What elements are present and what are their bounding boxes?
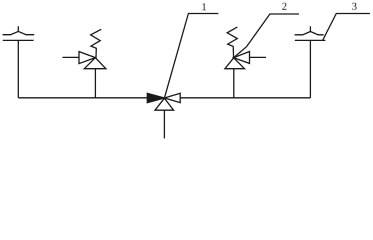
wire: arrester B down to bus [309,40,311,97]
wire: TVS1 down to bus [94,69,96,98]
wire: triac gate lead down [163,110,165,138]
triac filled left triangle [147,93,164,102]
TVS1 heat-coil zigzag [91,29,102,57]
label 3 [352,3,356,10]
wire: bus right segment [180,97,310,99]
arrester B upper electrode (roof) [295,32,324,35]
arrester B upper tick [309,26,311,31]
triac gate triangle (bottom) [155,98,174,110]
arrester A upper electrode (roof) [3,31,35,34]
TVS2 diode triangle [225,58,245,69]
TVS1 gate lead (left) [63,56,80,58]
leader line to label 3 [323,14,370,41]
TVS2 gate arrow (left-pointing) [234,52,250,64]
leader line to label 1 [165,14,219,98]
wire: TVS2 down to bus [233,69,235,98]
label 1 [202,3,206,10]
arrester A lower plate [3,39,34,41]
wire: arrester A down to bus [17,40,19,97]
leader line to label 2 [234,14,299,58]
label 2 [282,3,286,10]
wire: bus left segment [18,97,147,99]
triac open right triangle [164,93,180,102]
TVS2 gate lead (right) [250,56,267,58]
arrester A upper tick [17,26,19,31]
arrester B lower plate [295,39,326,41]
TVS2 heat-coil zigzag [227,27,237,58]
TVS1 diode triangle [84,58,106,69]
TVS1 gate arrow (right-pointing) [79,52,95,64]
